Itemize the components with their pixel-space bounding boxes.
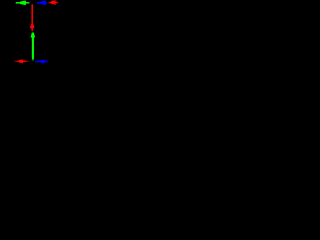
wire: red top-right streamline: [48, 0, 59, 5]
arrowhead: red vertical, apex up: [30, 25, 35, 29]
arrowhead: red top-right, pointing left: [51, 0, 56, 5]
arrowhead: red bottom, pointing left: [19, 59, 23, 63]
wire: green vertical streamline: [31, 33, 36, 62]
arrowhead: green vertical, apex up: [31, 33, 36, 38]
background: [0, 0, 66, 66]
wire: green top streamline: [16, 1, 31, 6]
wire: blue bottom streamline: [35, 59, 49, 63]
wire: blue top streamline: [37, 1, 48, 6]
arrowhead: blue top, pointing left: [40, 1, 46, 6]
wire: red bottom streamline: [14, 59, 30, 63]
arrowhead: blue bottom, pointing left: [40, 59, 44, 63]
arrowhead: green top, pointing left: [20, 1, 26, 6]
wire: red vertical streamline: [30, 4, 35, 32]
